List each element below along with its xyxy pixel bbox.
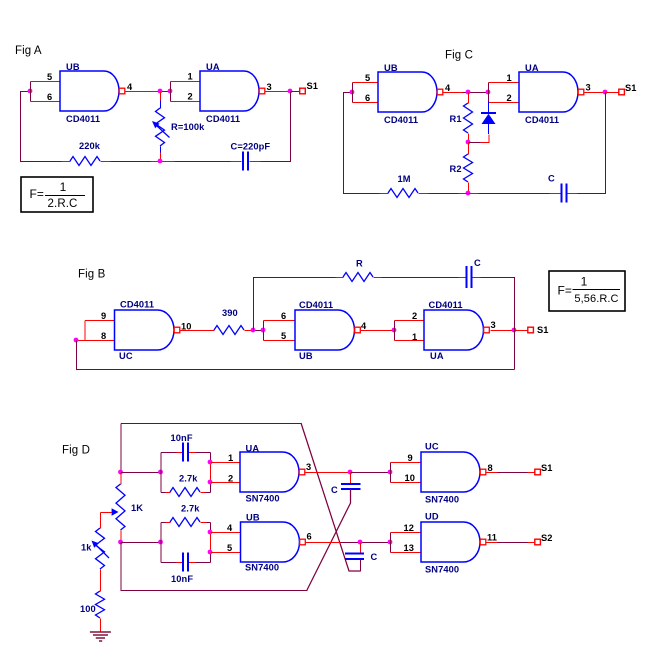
wire top feedback left (Fig B) xyxy=(254,278,336,331)
wire UA output to node (Fig A) xyxy=(266,91,291,93)
wire diode to R1 node (Fig C) xyxy=(469,142,481,144)
pin number 6 output UB (Fig D) xyxy=(307,532,312,542)
node UD input junction (Fig D) xyxy=(388,540,393,545)
value label CD4011 UA (Fig A) xyxy=(206,114,240,124)
svg-text:UA: UA xyxy=(525,63,539,73)
capacitor C upper cross (Fig D) xyxy=(341,484,361,489)
node junction top feedback (Fig B) xyxy=(251,328,256,333)
wire bottom to cap (Fig C) xyxy=(479,193,550,195)
wire R1 top stub (Fig C) xyxy=(468,93,470,104)
wire 1M right stub (Fig C) xyxy=(419,193,429,195)
pin number 3 output UA (Fig C) xyxy=(586,83,591,93)
svg-text:CD4011: CD4011 xyxy=(429,300,463,310)
wire 100 to ground (Fig D) xyxy=(100,619,102,633)
wire UA output (Fig D) xyxy=(305,472,350,474)
wire cap left stub (Fig A) xyxy=(231,161,242,163)
node junction UB input (Fig B) xyxy=(261,328,266,333)
wire cap left stub (Fig C) xyxy=(550,193,562,195)
svg-text:8: 8 xyxy=(488,463,493,473)
label UA (Fig A) xyxy=(206,62,220,72)
svg-text:UA: UA xyxy=(246,444,260,454)
value label CD4011 UB (Fig C) xyxy=(384,115,418,125)
terminal S1 (Fig D) xyxy=(535,469,541,475)
label UB (Fig B) xyxy=(299,351,313,361)
wire node to terminal S1 (Fig A) xyxy=(291,91,301,93)
pin number 1 UA (Fig B) xyxy=(412,332,417,342)
value label 1K (Fig D) xyxy=(131,503,143,513)
value label R=100k (Fig A) xyxy=(171,122,205,132)
wire R1 bottom stub (Fig C) xyxy=(468,134,470,143)
resistor 1M (Fig C) xyxy=(388,189,418,198)
svg-text:1: 1 xyxy=(188,72,193,82)
svg-text:1: 1 xyxy=(412,332,417,342)
svg-text:UB: UB xyxy=(246,513,260,523)
wire C left stub (Fig B) xyxy=(459,277,467,279)
value label C (Fig B) xyxy=(474,258,481,268)
svg-text:12: 12 xyxy=(404,523,415,533)
value label 1k (Fig D) xyxy=(81,543,92,553)
wire R2 node red (Fig C) xyxy=(459,193,479,195)
node junction R1 top (Fig C) xyxy=(466,90,471,95)
wire pin4 stub UB (Fig D) xyxy=(211,532,242,534)
wire pin9 stub UC (Fig D) xyxy=(391,462,422,464)
resistor 220k (Fig A) xyxy=(70,157,100,166)
wire pin1 stub UA (Fig D) xyxy=(211,462,241,464)
wire node to combo UA (Fig D) xyxy=(121,472,161,474)
pin number 3 output UA (Fig B) xyxy=(491,320,496,330)
NAND gate UB SN7400 (Fig D) xyxy=(241,522,306,562)
resistor R1 (Fig C) xyxy=(464,103,473,133)
resistor 2.7k UA combo (Fig D) xyxy=(170,488,200,497)
pin number 8 UC (Fig B) xyxy=(101,331,106,341)
ground symbol (Fig D) xyxy=(90,632,111,641)
wire UB output (Fig C) xyxy=(444,92,463,94)
wire to terminal S1 (Fig D) xyxy=(528,472,536,474)
svg-text:S1: S1 xyxy=(307,81,319,91)
pin number 3 output UA (Fig A) xyxy=(267,82,272,92)
wire bottom rail (Fig D) xyxy=(121,543,308,591)
wire input bracket UA (Fig B) xyxy=(394,321,396,341)
svg-text:UC: UC xyxy=(425,442,439,452)
NAND gate UB CD4011 (Fig B) xyxy=(295,310,360,350)
pin number 4 output UB (Fig A) xyxy=(127,82,133,92)
wire pin5 stub UB (Fig C) xyxy=(353,82,379,84)
formula box F=1/(5,56.R.C) (Fig B) xyxy=(549,271,625,311)
svg-text:6: 6 xyxy=(365,93,370,103)
svg-text:2.R.C: 2.R.C xyxy=(48,198,78,210)
svg-text:F=: F= xyxy=(30,187,45,201)
node pot bottom junction (Fig A) xyxy=(158,159,163,164)
pin number 4 UB (Fig D) xyxy=(227,523,233,533)
pin number 2 UA (Fig B) xyxy=(412,311,417,321)
svg-text:S1: S1 xyxy=(625,83,637,93)
wire 220k right stub (Fig A) xyxy=(101,161,111,163)
label UD (Fig D) xyxy=(425,512,439,522)
wire input bracket UA (Fig A) xyxy=(170,82,172,102)
NAND gate UD SN7400 (Fig D) xyxy=(421,522,486,562)
wire top feedback mid (Fig B) xyxy=(382,277,459,279)
wire pin6 stub UB (Fig A) xyxy=(31,101,61,103)
svg-text:11: 11 xyxy=(487,533,497,543)
wire UB output (Fig B) xyxy=(361,330,395,332)
svg-text:5,56.R.C: 5,56.R.C xyxy=(574,293,618,305)
wire pot bottom lead blue (Fig A) xyxy=(160,147,162,153)
svg-text:UC: UC xyxy=(119,351,133,361)
value label 1M (Fig C) xyxy=(398,174,411,184)
wire bottom feedback (Fig B) xyxy=(77,341,515,370)
wire 1K wiper down (Fig D) xyxy=(100,513,102,529)
svg-text:4: 4 xyxy=(227,523,233,533)
svg-text:R: R xyxy=(356,259,363,269)
NAND gate UC CD4011 (Fig B) xyxy=(115,310,180,350)
wire input bracket UB (Fig A) xyxy=(30,82,32,102)
potentiometer 1K wiper arrow (Fig D) xyxy=(101,508,119,515)
wire UB output (Fig D) xyxy=(306,542,341,544)
svg-text:UD: UD xyxy=(425,512,439,522)
wire cap top stub (Fig D) xyxy=(350,473,352,485)
pin number 2 UA (Fig A) xyxy=(188,92,193,102)
value label CD4011 UC (Fig B) xyxy=(120,300,154,310)
wire input bracket UD (Fig D) xyxy=(390,533,392,553)
wire R2 top stub (Fig C) xyxy=(468,143,470,155)
svg-text:100: 100 xyxy=(80,604,96,614)
svg-text:CD4011: CD4011 xyxy=(66,114,100,124)
capacitor 10nF UA combo (Fig D) xyxy=(183,443,188,462)
svg-text:8: 8 xyxy=(101,331,106,341)
svg-text:CD4011: CD4011 xyxy=(525,115,559,125)
pin number 4 output UB (Fig B) xyxy=(361,321,367,331)
node output S1 junction (Fig C) xyxy=(603,90,608,95)
svg-text:SN7400: SN7400 xyxy=(425,565,459,575)
wire UC output red stub (Fig D) xyxy=(486,472,497,474)
resistor 390 (Fig B) xyxy=(214,326,244,335)
svg-text:C: C xyxy=(548,174,555,184)
wire bottom run mid (Fig A) xyxy=(111,161,151,163)
svg-text:UB: UB xyxy=(299,351,313,361)
wire junction run (Fig B) xyxy=(254,330,264,332)
wire pin6 stub UB (Fig B) xyxy=(264,320,296,322)
svg-text:1: 1 xyxy=(228,453,233,463)
capacitor C (Fig B) xyxy=(467,266,472,288)
svg-text:Fig C: Fig C xyxy=(445,50,473,62)
wire bottom mid (Fig C) xyxy=(429,193,459,195)
value label CD4011 UA (Fig C) xyxy=(525,115,559,125)
wire 390 right stub (Fig B) xyxy=(245,330,254,332)
wire pot top lead red (Fig A) xyxy=(160,92,162,101)
pin number 9 UC (Fig D) xyxy=(408,453,413,463)
node cap tap UD row (Fig D) xyxy=(358,540,363,545)
svg-text:9: 9 xyxy=(408,453,413,463)
pin number 5 UB (Fig C) xyxy=(365,73,370,83)
svg-text:R=100k: R=100k xyxy=(171,122,205,132)
NAND gate UA CD4011 (Fig B) xyxy=(424,310,489,350)
node junction left input UB (Fig C) xyxy=(350,90,355,95)
svg-text:4: 4 xyxy=(445,83,451,93)
wire UB output to junction (Fig A) xyxy=(126,91,158,93)
wire UA output (Fig C) xyxy=(585,92,606,94)
svg-text:SN7400: SN7400 xyxy=(425,495,459,505)
value label 390 (Fig B) xyxy=(222,308,238,318)
pin number 10 UC (Fig D) xyxy=(405,473,416,483)
wire pin5 stub UB (Fig B) xyxy=(264,340,296,342)
wire pin1 stub UA (Fig B) xyxy=(395,340,425,342)
pin number 1 UA (Fig C) xyxy=(507,73,512,83)
svg-text:10nF: 10nF xyxy=(171,433,193,443)
svg-text:S2: S2 xyxy=(541,533,553,543)
label UC (Fig B) xyxy=(119,351,133,361)
label UA (Fig B) xyxy=(430,351,444,361)
svg-text:2.7k: 2.7k xyxy=(181,504,200,514)
NAND gate UA CD4011 (Fig C) xyxy=(519,72,584,112)
wire input bracket UB (Fig C) xyxy=(352,83,354,103)
parallel combo frame UB 2.7k/10nF (Fig D) xyxy=(161,523,211,563)
svg-text:CD4011: CD4011 xyxy=(206,114,240,124)
svg-text:Fig B: Fig B xyxy=(78,269,106,281)
wire pin12 stub UD (Fig D) xyxy=(391,532,422,534)
wire UC output run (Fig D) xyxy=(498,472,528,474)
pin number 3 output UA (Fig D) xyxy=(306,462,311,472)
value label 220k (Fig A) xyxy=(79,141,101,151)
wire feedback left (Fig A) xyxy=(21,92,62,162)
node UA input node (Fig D) xyxy=(118,470,123,475)
parallel combo frame UA 10nF/2.7k (Fig D) xyxy=(161,453,211,493)
value label CD4011 UB (Fig B) xyxy=(299,300,333,310)
svg-text:4: 4 xyxy=(127,82,133,92)
node output S1 junction (Fig A) xyxy=(288,89,293,94)
wire R right stub (Fig B) xyxy=(374,277,382,279)
label UC (Fig D) xyxy=(425,442,439,452)
node combo right pin5 (Fig D) xyxy=(208,550,213,555)
label S2 (Fig D) xyxy=(541,533,553,543)
wire junction run (Fig A) xyxy=(158,91,171,93)
value label R (Fig B) xyxy=(356,259,363,269)
op-amp style NAND gate UB CD4011 (Fig A) xyxy=(60,71,125,111)
wire lower cap top stub (Fig D) xyxy=(360,543,362,554)
wire output run (Fig C) xyxy=(463,92,489,94)
value label SN7400 UC (Fig D) xyxy=(425,495,459,505)
resistor R2 (Fig C) xyxy=(464,154,473,182)
figure label Fig C xyxy=(445,50,473,62)
wire UD output red stub (Fig D) xyxy=(486,542,497,544)
value label R2 (Fig C) xyxy=(450,164,462,174)
svg-text:SN7400: SN7400 xyxy=(245,563,279,573)
value label 2.7k UB combo (Fig D) xyxy=(181,504,200,514)
svg-text:1: 1 xyxy=(581,275,588,289)
svg-text:9: 9 xyxy=(101,311,106,321)
wire input bracket UC (Fig D) xyxy=(390,463,392,483)
wire top rail (Fig D) xyxy=(121,423,302,425)
pin number 5 UB (Fig D) xyxy=(227,543,232,553)
terminal S1 (Fig A) xyxy=(300,88,306,94)
wire pin1 stub UA (Fig A) xyxy=(171,81,201,83)
pin number 1 UA (Fig D) xyxy=(228,453,233,463)
svg-text:UB: UB xyxy=(384,63,398,73)
pin number 6 UB (Fig C) xyxy=(365,93,370,103)
figure label Fig D xyxy=(62,445,90,457)
NAND gate UC SN7400 (Fig D) xyxy=(421,452,486,492)
wire feedback left (Fig C) xyxy=(344,93,380,194)
wire cross diagonal from top rail (Fig D) xyxy=(301,423,360,571)
potentiometer 1K body (Fig D) xyxy=(116,484,125,530)
wire pot bottom lead red (Fig A) xyxy=(160,153,162,162)
wire pin5 stub UB (Fig D) xyxy=(211,552,242,554)
svg-text:C: C xyxy=(371,552,378,562)
wire cap bottom lead (Fig D) xyxy=(307,489,351,590)
wire pin10 stub UC (Fig D) xyxy=(391,482,422,484)
wire UC output (Fig B) xyxy=(181,330,215,332)
pin number 8 output UC (Fig D) xyxy=(488,463,493,473)
wire left vertical (Fig D) xyxy=(120,424,122,473)
node output junction (Fig B) xyxy=(512,328,517,333)
svg-text:S1: S1 xyxy=(541,463,553,473)
svg-text:4: 4 xyxy=(361,321,367,331)
svg-text:1: 1 xyxy=(507,73,512,83)
svg-text:6: 6 xyxy=(281,311,286,321)
wire to terminal S2 (Fig D) xyxy=(528,542,536,544)
svg-text:10nF: 10nF xyxy=(171,574,193,584)
wire UA output (Fig B) xyxy=(491,330,515,332)
svg-text:Fig A: Fig A xyxy=(15,45,42,57)
node junction left input UB (Fig A) xyxy=(28,89,33,94)
node cap tap UA row (Fig D) xyxy=(348,470,353,475)
svg-text:UA: UA xyxy=(206,62,220,72)
value label CD4011 UA (Fig B) xyxy=(429,300,463,310)
wire input bracket UC (Fig B) xyxy=(84,321,86,341)
svg-text:2: 2 xyxy=(188,92,193,102)
svg-text:2: 2 xyxy=(228,474,233,484)
resistor 2.7k UB combo (Fig D) xyxy=(170,518,200,527)
pin number 6 UB (Fig A) xyxy=(47,92,52,102)
wire UD output run (Fig D) xyxy=(498,542,528,544)
svg-text:6: 6 xyxy=(47,92,52,102)
wire right feedback (Fig C) xyxy=(578,93,606,194)
pin number 12 UD (Fig D) xyxy=(404,523,415,533)
wire pin2 stub UA (Fig A) xyxy=(171,101,201,103)
svg-text:UA: UA xyxy=(430,351,444,361)
node combo right pin2 (Fig D) xyxy=(208,480,213,485)
terminal S1 (Fig B) xyxy=(528,327,534,333)
figure label Fig B xyxy=(78,269,106,281)
svg-text:1k: 1k xyxy=(81,543,92,553)
wire pin2 stub UA (Fig D) xyxy=(211,482,241,484)
svg-text:1: 1 xyxy=(60,180,67,194)
NAND gate UA SN7400 (Fig D) xyxy=(240,452,305,492)
wire lower cap bottom lead (Fig D) xyxy=(360,560,362,572)
svg-text:10: 10 xyxy=(405,473,416,483)
value label C=220pF (Fig A) xyxy=(231,142,271,152)
NAND gate UA CD4011 (Fig A) xyxy=(200,71,265,111)
value label 100 (Fig D) xyxy=(80,604,96,614)
node combo left UB (Fig D) xyxy=(158,540,163,545)
svg-text:220k: 220k xyxy=(79,141,101,151)
svg-text:5: 5 xyxy=(227,543,232,553)
pin number 2 UA (Fig C) xyxy=(507,93,512,103)
value label R1 (Fig C) xyxy=(450,114,462,124)
label UB (Fig A) xyxy=(66,62,80,72)
value label C upper (Fig D) xyxy=(331,485,338,495)
node combo left UA (Fig D) xyxy=(158,470,163,475)
label S1 (Fig B) xyxy=(537,325,549,335)
wire 1M left stub (Fig C) xyxy=(380,193,389,195)
wire R left stub (Fig B) xyxy=(336,277,344,279)
label S1 (Fig D) xyxy=(541,463,553,473)
pin number 4 output UB (Fig C) xyxy=(445,83,451,93)
svg-text:1K: 1K xyxy=(131,503,143,513)
resistor 100 (Fig D) xyxy=(96,591,105,618)
node combo right pin4 (Fig D) xyxy=(208,530,213,535)
pin number 1 UA (Fig A) xyxy=(188,72,193,82)
node junction UA input (Fig B) xyxy=(392,328,397,333)
svg-text:C: C xyxy=(331,485,338,495)
pin number 10 output UC (Fig B) xyxy=(181,322,192,332)
label UA (Fig D) xyxy=(246,444,260,454)
node UC input junction (Fig D) xyxy=(388,470,393,475)
NAND gate UB CD4011 (Fig C) xyxy=(378,72,443,112)
node junction R1/R2/diode (Fig C) xyxy=(466,140,471,145)
wire input bracket UB (Fig B) xyxy=(263,321,265,341)
wire pot bottom node red (Fig A) xyxy=(151,161,175,163)
svg-text:3: 3 xyxy=(306,462,311,472)
wire pin5 stub UB (Fig A) xyxy=(31,81,61,83)
svg-text:C=220pF: C=220pF xyxy=(231,142,271,152)
value label 10nF UB combo (Fig D) xyxy=(171,574,193,584)
svg-text:CD4011: CD4011 xyxy=(120,300,154,310)
svg-text:13: 13 xyxy=(404,543,415,553)
pin number 5 UB (Fig B) xyxy=(281,331,286,341)
label S1 (Fig C) xyxy=(625,83,637,93)
wire pin9 stub UC (Fig B) xyxy=(85,320,115,322)
value label SN7400 UA (Fig D) xyxy=(246,494,280,504)
svg-text:5: 5 xyxy=(47,72,52,82)
wire pot node to combo UB (Fig D) xyxy=(121,542,161,544)
node junction UA input (Fig C) xyxy=(486,90,491,95)
wire pin1 stub UA (Fig C) xyxy=(489,82,520,84)
svg-text:5: 5 xyxy=(281,331,286,341)
pin number 9 UC (Fig B) xyxy=(101,311,106,321)
svg-text:S1: S1 xyxy=(537,325,549,335)
wire pot 1K bottom stub (Fig D) xyxy=(120,531,122,543)
capacitor C (Fig C) xyxy=(562,184,567,203)
terminal S1 (Fig C) xyxy=(619,89,625,95)
svg-text:CD4011: CD4011 xyxy=(299,300,333,310)
svg-text:R1: R1 xyxy=(450,114,462,124)
formula box F=1/(2.R.C) (Fig A) xyxy=(21,177,93,212)
wire 220k left stub (Fig A) xyxy=(62,161,71,163)
terminal S2 (Fig D) xyxy=(535,539,541,545)
capacitor C=220pF (Fig A) xyxy=(243,152,248,171)
pin number 11 output UD (Fig D) xyxy=(487,533,497,543)
pin number 2 UA (Fig D) xyxy=(228,474,233,484)
svg-text:1M: 1M xyxy=(398,174,411,184)
pin number 6 UB (Fig B) xyxy=(281,311,286,321)
potentiometer 1k wiper arrow (Fig D) xyxy=(92,541,110,559)
svg-text:3: 3 xyxy=(267,82,272,92)
node junction pot top (Fig A) xyxy=(158,89,163,94)
value label SN7400 UD (Fig D) xyxy=(425,565,459,575)
wire bottom run to cap (Fig A) xyxy=(175,161,231,163)
wire UB row run (Fig D) xyxy=(341,542,391,544)
wire pin2 stub UA (Fig C) xyxy=(489,102,520,104)
potentiometer 1k body (Fig D) xyxy=(96,528,105,569)
svg-text:CD4011: CD4011 xyxy=(384,115,418,125)
wire pot 1K top stub (Fig D) xyxy=(120,473,122,485)
pin number 5 UB (Fig A) xyxy=(47,72,52,82)
label S1 (Fig A) xyxy=(307,81,319,91)
wire C right stub (Fig B) xyxy=(473,277,481,279)
potentiometer wiper arrow (Fig A) xyxy=(152,121,170,138)
wire pin2 stub UA (Fig B) xyxy=(395,320,425,322)
svg-text:UB: UB xyxy=(66,62,80,72)
